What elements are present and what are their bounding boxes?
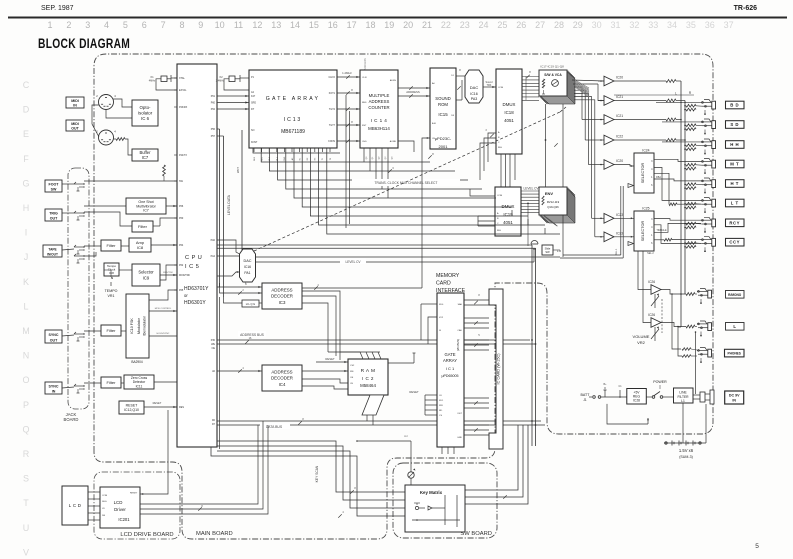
- svg-text:MIDI: MIDI: [71, 99, 79, 103]
- svg-text:PHONES: PHONES: [727, 352, 740, 356]
- svg-text:LINE: LINE: [679, 391, 687, 395]
- svg-text:DAC: DAC: [470, 85, 479, 90]
- svg-text:I: I: [25, 228, 28, 238]
- svg-text:34: 34: [667, 20, 677, 30]
- svg-text:Modulator: Modulator: [137, 317, 141, 334]
- svg-text:TRIG: TRIG: [49, 211, 58, 215]
- svg-text:SELECTOR: SELECTOR: [641, 221, 645, 242]
- svg-text:IC25: IC25: [642, 207, 649, 211]
- svg-text:SEP. 1987: SEP. 1987: [41, 5, 74, 12]
- svg-text:SELECTOR: SELECTOR: [641, 163, 645, 184]
- svg-text:TGT7: TGT7: [329, 124, 336, 127]
- svg-text:OUT: OUT: [50, 217, 58, 221]
- svg-text:P65: P65: [179, 289, 184, 292]
- svg-text:GATE ARRAY: GATE ARRAY: [266, 96, 320, 102]
- svg-text:TGT2: TGT2: [329, 108, 336, 111]
- svg-text:H H: H H: [730, 142, 739, 147]
- svg-text:P: P: [23, 400, 29, 410]
- svg-text:8: 8: [179, 20, 184, 30]
- svg-text:IC22: IC22: [616, 135, 623, 139]
- svg-text:ADDRESS: ADDRESS: [271, 288, 292, 293]
- svg-text:CE: CE: [432, 138, 436, 140]
- svg-text:ADDRESS: ADDRESS: [271, 370, 292, 375]
- svg-text:ROM: ROM: [438, 102, 448, 107]
- svg-text:1.2MHz: 1.2MHz: [342, 71, 352, 75]
- svg-text:N: N: [23, 351, 30, 361]
- svg-text:TAPE: TAPE: [48, 247, 56, 251]
- svg-text:TRK: TRK: [487, 84, 492, 87]
- svg-text:P62: P62: [211, 108, 216, 111]
- svg-text:CHS: CHS: [362, 141, 367, 143]
- svg-text:Key Matrix: Key Matrix: [420, 490, 443, 495]
- svg-text:P57: P57: [211, 135, 216, 138]
- svg-text:4051: 4051: [504, 118, 514, 123]
- svg-text:P66: P66: [179, 205, 184, 208]
- svg-text:SYNC: SYNC: [49, 333, 59, 337]
- svg-text:9: 9: [198, 20, 203, 30]
- svg-text:4051: 4051: [503, 220, 513, 225]
- svg-text:B D: B D: [730, 103, 739, 108]
- svg-text:16: 16: [328, 20, 338, 30]
- svg-text:2.4MHz: 2.4MHz: [216, 80, 225, 83]
- svg-text:21: 21: [422, 20, 432, 30]
- svg-text:G: G: [22, 178, 29, 188]
- svg-text:IC26: IC26: [648, 313, 655, 317]
- svg-text:μPD23C-: μPD23C-: [435, 136, 452, 141]
- svg-text:L: L: [733, 324, 736, 329]
- svg-text:27: 27: [535, 20, 545, 30]
- svg-text:SYNC: SYNC: [49, 384, 59, 388]
- svg-text:RXD/TDK: RXD/TDK: [163, 272, 173, 274]
- svg-text:KOT1: KOT1: [329, 92, 336, 95]
- svg-text:OE: OE: [350, 377, 354, 379]
- svg-text:I C 1 4: I C 1 4: [371, 118, 387, 123]
- svg-text:R: R: [23, 449, 30, 459]
- svg-text:X1: X1: [150, 75, 154, 79]
- svg-text:ADDRESS: ADDRESS: [364, 58, 367, 70]
- svg-text:SW: SW: [51, 188, 57, 192]
- svg-text:IN: IN: [52, 390, 56, 394]
- svg-text:DT: DT: [251, 108, 255, 111]
- svg-text:VOLUME: VOLUME: [633, 334, 650, 339]
- svg-text:BOARD: BOARD: [64, 417, 79, 422]
- svg-text:P60: P60: [211, 102, 216, 105]
- svg-text:Isolator: Isolator: [138, 111, 153, 116]
- svg-text:LCD: LCD: [114, 500, 123, 505]
- svg-text:KEY SCAN: KEY SCAN: [315, 465, 319, 482]
- svg-text:T: T: [23, 498, 29, 508]
- svg-text:4MHz: 4MHz: [149, 80, 156, 83]
- svg-text:Filter: Filter: [107, 380, 117, 385]
- svg-text:29: 29: [573, 20, 583, 30]
- svg-text:INH: INH: [498, 147, 502, 149]
- svg-text:C P U: C P U: [185, 255, 202, 261]
- svg-text:or: or: [184, 293, 188, 298]
- svg-text:HD63701Y: HD63701Y: [184, 286, 209, 292]
- svg-text:SEL.1: SEL.1: [615, 248, 618, 255]
- svg-text:IC3: IC3: [279, 300, 286, 305]
- svg-text:4: 4: [104, 20, 109, 30]
- svg-text:Driver: Driver: [114, 507, 126, 512]
- svg-text:SEL.2: SEL.2: [647, 252, 654, 255]
- svg-text:R/MONO: R/MONO: [728, 293, 742, 297]
- svg-text:M T: M T: [730, 162, 739, 167]
- svg-text:IC23: IC23: [616, 213, 623, 217]
- svg-text:P30: P30: [211, 339, 216, 342]
- svg-text:IC12,Q10: IC12,Q10: [124, 408, 139, 412]
- svg-text:HOLD/SYNC: HOLD/SYNC: [157, 333, 170, 335]
- svg-text:SAE: SAE: [458, 303, 463, 306]
- svg-text:I C 5: I C 5: [185, 264, 199, 270]
- svg-text:1.5V x6: 1.5V x6: [679, 448, 694, 453]
- svg-text:CAD: CAD: [457, 329, 462, 332]
- svg-text:31: 31: [610, 20, 620, 30]
- svg-text:13: 13: [271, 20, 281, 30]
- svg-text:23: 23: [460, 20, 470, 30]
- svg-text:CLKI: CLKI: [362, 77, 367, 79]
- svg-text:30: 30: [592, 20, 602, 30]
- svg-text:IC18: IC18: [504, 110, 514, 115]
- svg-text:IN: IN: [73, 104, 77, 108]
- svg-text:2001: 2001: [439, 144, 449, 149]
- svg-text:EXTAL: EXTAL: [179, 89, 187, 92]
- svg-text:AORE: AORE: [390, 140, 397, 143]
- svg-text:E: E: [23, 129, 29, 139]
- svg-text:IC17-IC19 Q1-Q8: IC17-IC19 Q1-Q8: [540, 65, 564, 69]
- svg-text:MOD/TDK: MOD/TDK: [179, 274, 190, 277]
- svg-text:FOOT: FOOT: [49, 182, 60, 186]
- svg-text:Opto-: Opto-: [140, 105, 152, 110]
- svg-text:C: C: [23, 80, 30, 90]
- svg-text:MEMORY: MEMORY: [436, 273, 460, 279]
- svg-text:DET: DET: [458, 413, 463, 415]
- svg-text:DATA BUS: DATA BUS: [266, 425, 283, 429]
- svg-text:11: 11: [234, 20, 243, 30]
- svg-text:1: 1: [47, 20, 52, 30]
- svg-text:RESET: RESET: [130, 493, 138, 495]
- svg-text:MB63H114: MB63H114: [368, 126, 390, 131]
- svg-text:7: 7: [161, 20, 166, 30]
- svg-text:17: 17: [347, 20, 357, 30]
- svg-text:33: 33: [648, 20, 658, 30]
- svg-text:TR-626: TR-626: [734, 5, 757, 12]
- svg-text:MULTIPLE: MULTIPLE: [369, 93, 390, 98]
- svg-text:IC10 FSK: IC10 FSK: [130, 318, 134, 334]
- svg-text:Filter: Filter: [107, 328, 117, 333]
- svg-text:RESET: RESET: [409, 390, 419, 394]
- svg-text:D: D: [23, 105, 30, 115]
- svg-text:PA0: PA0: [211, 239, 216, 242]
- svg-text:X2: X2: [219, 75, 223, 79]
- svg-text:S D: S D: [730, 122, 739, 127]
- svg-text:MOD CONTROL: MOD CONTROL: [155, 308, 172, 310]
- svg-text:GND: GND: [457, 437, 462, 439]
- svg-text:HD6301Y: HD6301Y: [184, 300, 206, 306]
- svg-text:IC20: IC20: [616, 76, 623, 80]
- svg-text:RESET: RESET: [325, 357, 335, 361]
- svg-text:S/W & VCA: S/W & VCA: [544, 73, 562, 77]
- svg-text:RV12-119: RV12-119: [547, 200, 560, 204]
- svg-text:MB671189: MB671189: [281, 129, 305, 135]
- svg-text:O: O: [22, 375, 29, 385]
- svg-text:WDT: WDT: [236, 167, 240, 173]
- svg-text:CARD: CARD: [436, 281, 451, 287]
- svg-text:3: 3: [85, 20, 90, 30]
- svg-text:COUNTER: COUNTER: [368, 105, 389, 110]
- svg-text:IC4: IC4: [279, 382, 286, 387]
- svg-text:SOUND: SOUND: [435, 96, 451, 101]
- svg-text:DECODER: DECODER: [271, 376, 293, 381]
- svg-text:J1: J1: [583, 398, 587, 402]
- svg-text:2: 2: [66, 20, 71, 30]
- svg-text:DMUX: DMUX: [502, 204, 515, 209]
- svg-text:IC7: IC7: [142, 155, 149, 160]
- svg-text:H: H: [23, 203, 30, 213]
- svg-text:L1: L1: [681, 399, 685, 403]
- svg-text:P64: P64: [179, 244, 184, 247]
- svg-text:IN/OUT: IN/OUT: [47, 253, 58, 257]
- svg-text:P60: P60: [179, 217, 184, 220]
- svg-text:IC28: IC28: [633, 399, 640, 403]
- svg-text:MAIN BOARD: MAIN BOARD: [196, 531, 233, 537]
- svg-text:K27: K27: [251, 95, 256, 98]
- svg-text:RES: RES: [179, 406, 184, 409]
- svg-text:(I/O·BUS): (I/O·BUS): [456, 339, 460, 351]
- svg-text:22: 22: [441, 20, 451, 30]
- svg-text:LEVEL DATA: LEVEL DATA: [227, 194, 231, 215]
- svg-text:KNST: KNST: [251, 141, 258, 144]
- svg-text:IC201: IC201: [118, 517, 130, 522]
- svg-text:S: S: [23, 474, 29, 484]
- svg-text:WE: WE: [350, 371, 354, 373]
- svg-text:R A M: R A M: [361, 368, 376, 374]
- svg-text:20: 20: [403, 20, 413, 30]
- svg-text:INH: INH: [497, 230, 501, 232]
- svg-text:GATE: GATE: [444, 352, 455, 357]
- svg-text:15: 15: [309, 20, 319, 30]
- svg-text:DB: DB: [102, 515, 106, 517]
- svg-text:Q19-Q26: Q19-Q26: [547, 205, 559, 209]
- svg-text:ARRAY: ARRAY: [443, 358, 457, 363]
- svg-text:IC23: IC23: [616, 231, 623, 235]
- svg-text:CCY: CCY: [729, 240, 740, 245]
- svg-text:Selector: Selector: [138, 269, 154, 274]
- svg-text:Multivibrator: Multivibrator: [136, 204, 156, 208]
- svg-text:OUT: OUT: [50, 339, 58, 343]
- svg-text:SEG: SEG: [102, 501, 107, 503]
- svg-text:IC7: IC7: [143, 209, 149, 213]
- svg-text:DC 9V: DC 9V: [729, 394, 740, 398]
- svg-text:DECODER: DECODER: [271, 294, 293, 299]
- svg-text:LCD DRIVE BOARD: LCD DRIVE BOARD: [120, 532, 173, 538]
- svg-text:XTAL: XTAL: [179, 77, 185, 80]
- svg-text:One Shot: One Shot: [138, 200, 153, 204]
- svg-text:L.R: L.R: [557, 249, 561, 253]
- svg-text:IC8: IC8: [137, 245, 144, 250]
- svg-text:35: 35: [686, 20, 696, 30]
- svg-text:5: 5: [755, 543, 759, 550]
- svg-text:SW: SW: [545, 250, 550, 254]
- svg-text:P62: P62: [179, 264, 184, 267]
- svg-text:RD: RD: [439, 410, 443, 412]
- svg-text:36: 36: [705, 20, 715, 30]
- svg-text:SRD: SRD: [251, 102, 256, 105]
- svg-text:IC11: IC11: [136, 384, 143, 388]
- svg-text:CLKO: CLKO: [328, 76, 335, 79]
- svg-text:ADDRESS BUS: ADDRESS BUS: [240, 333, 264, 337]
- svg-text:RES: RES: [362, 102, 367, 104]
- svg-text:M58464: M58464: [360, 383, 376, 388]
- svg-text:32: 32: [629, 20, 639, 30]
- svg-text:IC20: IC20: [616, 159, 623, 163]
- svg-text:SO: SO: [251, 129, 255, 132]
- svg-text:RCY: RCY: [729, 220, 740, 225]
- svg-text:VR1: VR1: [108, 294, 115, 298]
- svg-text:IC CARD (W-15C): IC CARD (W-15C): [497, 353, 501, 385]
- svg-text:IC8: IC8: [109, 271, 114, 275]
- svg-text:Filter: Filter: [107, 243, 117, 248]
- svg-text:IC 6: IC 6: [141, 116, 150, 121]
- svg-text:LEVEL CV: LEVEL CV: [523, 187, 539, 191]
- svg-text:F: F: [23, 154, 29, 164]
- svg-text:I C 2: I C 2: [362, 376, 374, 381]
- svg-text:ADDRESS: ADDRESS: [406, 90, 420, 94]
- svg-text:IC9: IC9: [143, 275, 150, 280]
- svg-text:TEMPO: TEMPO: [105, 289, 118, 293]
- svg-text:U: U: [23, 523, 30, 533]
- svg-text:Filter: Filter: [138, 224, 148, 229]
- svg-text:PA3: PA3: [471, 97, 478, 101]
- svg-text:WR: WR: [439, 405, 443, 407]
- svg-text:ADDRESS: ADDRESS: [369, 99, 390, 104]
- svg-text:J: J: [24, 252, 29, 262]
- svg-text:RESET: RESET: [126, 403, 139, 407]
- svg-text:(SUM-3): (SUM-3): [679, 455, 693, 459]
- svg-text:TIMBALE: TIMBALE: [656, 229, 667, 232]
- svg-text:ENV: ENV: [545, 191, 554, 196]
- svg-text:VR2: VR2: [637, 340, 646, 345]
- svg-text:IC21: IC21: [616, 95, 623, 99]
- svg-text:COM: COM: [497, 195, 502, 197]
- svg-text:COM: COM: [498, 87, 503, 89]
- svg-text:P61: P61: [211, 95, 216, 98]
- svg-text:SD0: SD0: [254, 156, 256, 161]
- svg-text:12: 12: [252, 20, 262, 30]
- svg-text:P24/TX: P24/TX: [179, 154, 187, 157]
- svg-text:MIDI: MIDI: [71, 122, 79, 126]
- svg-text:Slide: Slide: [545, 247, 551, 251]
- svg-text:25: 25: [497, 20, 507, 30]
- svg-text:POWER: POWER: [653, 380, 667, 384]
- svg-text:RESET: RESET: [153, 401, 162, 405]
- svg-text:DMUX: DMUX: [503, 102, 516, 107]
- svg-text:ADRS: ADRS: [390, 79, 397, 82]
- svg-text:BA2904: BA2904: [131, 360, 143, 364]
- svg-text:IC15: IC15: [438, 112, 448, 117]
- svg-text:WE: WE: [211, 343, 215, 346]
- svg-text:COM: COM: [102, 495, 107, 497]
- svg-text:18: 18: [365, 20, 375, 30]
- svg-text:IC16: IC16: [244, 265, 251, 269]
- svg-text:BATT: BATT: [581, 393, 591, 397]
- svg-text:PA4: PA4: [211, 255, 216, 258]
- svg-text:14: 14: [290, 20, 300, 30]
- svg-text:LEVEL CV: LEVEL CV: [345, 260, 361, 264]
- svg-text:OE: OE: [212, 347, 216, 350]
- svg-text:19: 19: [384, 20, 394, 30]
- svg-text:L C D: L C D: [69, 503, 82, 508]
- svg-text:/Demodulator: /Demodulator: [143, 315, 147, 336]
- svg-text:DBA: DBA: [656, 176, 661, 179]
- svg-text:H L Q G: H L Q G: [246, 302, 255, 306]
- svg-text:V: V: [23, 547, 29, 557]
- svg-text:IC21: IC21: [616, 114, 623, 118]
- svg-text:IC13: IC13: [284, 117, 302, 123]
- svg-text:28: 28: [554, 20, 564, 30]
- svg-text:24: 24: [479, 20, 489, 30]
- svg-text:IC16: IC16: [470, 92, 478, 96]
- svg-text:26: 26: [516, 20, 526, 30]
- svg-text:L: L: [23, 301, 28, 311]
- svg-text:Q: Q: [22, 424, 29, 434]
- svg-text:IC24: IC24: [642, 149, 649, 153]
- svg-text:OUT: OUT: [71, 127, 79, 131]
- svg-text:10: 10: [215, 20, 225, 30]
- svg-text:DAC: DAC: [243, 259, 251, 263]
- svg-text:H T: H T: [730, 181, 738, 186]
- svg-text:P56: P56: [211, 128, 216, 131]
- svg-text:5: 5: [123, 20, 128, 30]
- svg-text:L T: L T: [731, 201, 739, 206]
- svg-text:BLOCK DIAGRAM: BLOCK DIAGRAM: [38, 36, 130, 52]
- svg-text:P23/RX: P23/RX: [179, 106, 188, 109]
- svg-text:37: 37: [724, 20, 734, 30]
- svg-text:CS: CS: [439, 415, 443, 417]
- svg-text:6: 6: [142, 20, 147, 30]
- svg-text:IC26: IC26: [648, 280, 655, 284]
- svg-text:K: K: [23, 277, 29, 287]
- svg-text:M: M: [22, 326, 30, 336]
- svg-text:I C 1: I C 1: [446, 366, 455, 371]
- svg-text:KONS: KONS: [328, 140, 335, 143]
- svg-text:IN: IN: [732, 399, 736, 403]
- svg-text:RST: RST: [362, 125, 367, 127]
- svg-text:μPD65005: μPD65005: [441, 374, 458, 378]
- svg-text:PA1: PA1: [244, 271, 250, 275]
- svg-text:CE: CE: [350, 383, 354, 385]
